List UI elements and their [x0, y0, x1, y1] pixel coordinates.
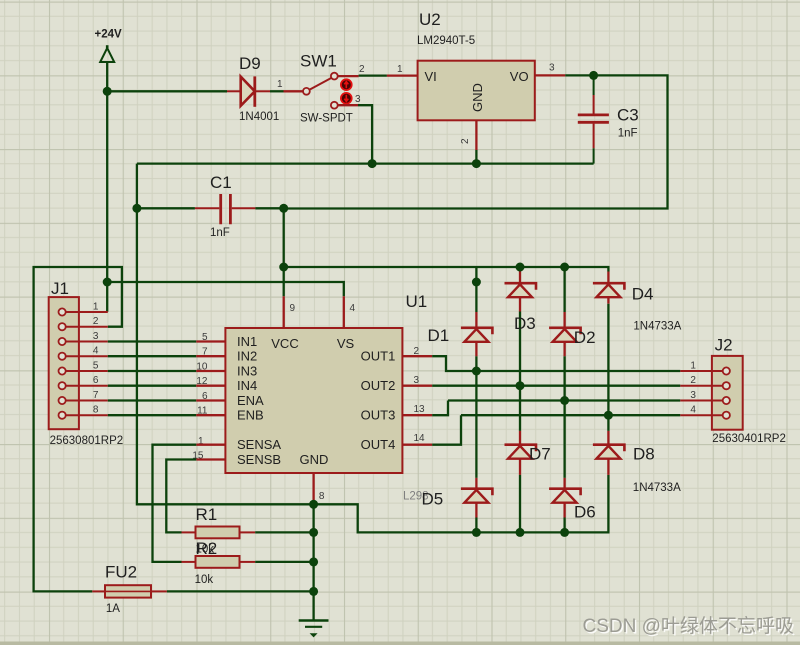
diode D8 (zener, cathode up)	[593, 445, 625, 459]
wire D1 anode to row1	[475, 356, 477, 371]
svg-text:VCC: VCC	[271, 336, 298, 351]
junction 5V rail / D2	[560, 263, 569, 272]
svg-text:1nF: 1nF	[618, 128, 638, 140]
svg-text:2: 2	[460, 138, 471, 144]
svg-text:SENSA: SENSA	[237, 437, 281, 452]
pin lead D5 anode	[475, 503, 477, 518]
junction GND / FU2	[309, 587, 318, 596]
junction bottom rail / D5	[472, 528, 481, 537]
J1 pin 5 stub	[66, 370, 108, 372]
svg-text:U2: U2	[419, 10, 441, 29]
svg-text:8: 8	[319, 491, 325, 502]
svg-text:D8: D8	[633, 445, 655, 464]
wire row3 down to D6	[563, 401, 565, 478]
J2 pin 4 stub	[680, 414, 722, 416]
wire J1 to U1 input row	[108, 414, 197, 416]
wire +24V rail y282 to VS	[107, 282, 344, 296]
svg-text:SW-SPDT: SW-SPDT	[300, 113, 353, 125]
pin lead D3 anode	[519, 297, 521, 311]
svg-text:OUT3: OUT3	[361, 408, 396, 423]
wire SENSB to R1	[166, 460, 196, 533]
junction row2 / D3	[516, 381, 525, 390]
svg-text:4: 4	[350, 303, 356, 314]
svg-text:D5: D5	[422, 490, 444, 509]
svg-text:C3: C3	[617, 106, 639, 125]
wire U2 GND to rail	[475, 150, 477, 164]
pin lead D7 anode	[519, 459, 521, 475]
driver U1 L298 body	[225, 328, 402, 473]
wire SW1 throw B to rail	[358, 105, 372, 163]
junction row4 / D4	[604, 411, 613, 420]
svg-text:14: 14	[414, 433, 426, 444]
pin stub SW1 pole	[284, 90, 303, 92]
fuse FU2	[92, 585, 167, 597]
wire C1 right lead	[255, 207, 283, 209]
svg-text:VO: VO	[510, 69, 529, 84]
svg-text:D7: D7	[529, 445, 551, 464]
wire mid rail y163	[137, 162, 594, 164]
wire D5 anode to bottom rail	[475, 518, 477, 533]
pin stub U1 VS	[343, 296, 345, 328]
resistor R1	[182, 527, 256, 539]
pin lead D2 cathode	[563, 312, 565, 328]
wire OUT2 to J2 pin2	[432, 385, 680, 387]
svg-text:3: 3	[355, 94, 361, 105]
pin lead D4 anode	[607, 297, 609, 304]
svg-text:1: 1	[690, 361, 696, 372]
svg-text:D1: D1	[428, 326, 450, 345]
svg-text:D4: D4	[632, 285, 654, 304]
svg-text:5: 5	[93, 361, 99, 372]
J1 pin 4 circle	[59, 353, 66, 360]
wire D7 anode to bottom rail	[519, 475, 521, 533]
wire row3 to J2 pin3	[448, 399, 680, 401]
junction +24V / D9 row	[103, 87, 112, 96]
pin lead D5 cathode	[475, 478, 477, 489]
svg-text:VS: VS	[337, 336, 355, 351]
svg-text:C1: C1	[210, 173, 232, 192]
svg-text:7: 7	[93, 390, 99, 401]
regulator U2 LM2940T-5 body	[418, 61, 535, 121]
svg-text:R1: R1	[196, 505, 218, 524]
wire 5V rail to D2	[563, 267, 565, 312]
wire C1-left down to GND row and diode bottom rail	[137, 164, 609, 533]
junction bottom rail / D6	[560, 528, 569, 537]
pin stub U1 GND	[312, 473, 314, 502]
svg-text:D9: D9	[239, 54, 261, 73]
pin stub U2 VI	[387, 74, 418, 76]
svg-text:D6: D6	[574, 503, 596, 522]
wire J1 to U1 input row	[108, 355, 197, 357]
wire row4 to J2 pin4	[461, 414, 680, 416]
svg-text:1N4733A: 1N4733A	[633, 321, 681, 333]
wire D4 anode to row4	[607, 304, 609, 416]
pin stub SENSA	[196, 444, 225, 446]
wire J1 to U1 input row	[108, 399, 197, 401]
svg-text:OUT2: OUT2	[361, 378, 396, 393]
svg-text:J1: J1	[51, 279, 69, 298]
svg-text:GND: GND	[470, 83, 485, 112]
junction C1 right / 5V	[279, 204, 288, 213]
J2 pin 1 stub	[680, 370, 722, 372]
pin stub U1 input	[196, 340, 225, 342]
wire FU2 to GND node	[167, 590, 314, 592]
svg-text:1: 1	[93, 302, 99, 313]
J2 pin 3 circle	[723, 397, 730, 404]
junction D1 column tap	[472, 278, 481, 287]
wire C1 left lead	[137, 207, 195, 209]
connector J1 body	[49, 297, 79, 429]
wire D3 anode to row2	[519, 312, 521, 386]
junction GND / R1	[309, 528, 318, 537]
diode D5 (zener, cathode up)	[461, 489, 493, 503]
pin lead D8 cathode	[607, 431, 609, 445]
J1 pin 1 circle	[59, 308, 66, 315]
svg-text:5: 5	[202, 332, 208, 343]
svg-text:VI: VI	[425, 69, 437, 84]
pin lead D2 anode	[563, 342, 565, 357]
svg-text:+24V: +24V	[95, 29, 123, 41]
svg-text:7: 7	[202, 347, 208, 358]
svg-text:1: 1	[277, 79, 283, 90]
pin lead D6 anode	[563, 503, 565, 518]
svg-text:SENSB: SENSB	[237, 452, 281, 467]
wire OUT1 to J2 pin1	[432, 356, 680, 371]
wire D9 cathode to SW1	[270, 90, 284, 92]
svg-text:OUT1: OUT1	[361, 349, 396, 364]
svg-text:2: 2	[359, 64, 365, 75]
svg-text:8: 8	[93, 405, 99, 416]
pin lead D7 cathode	[519, 431, 521, 445]
pin stub SENSB	[196, 458, 225, 460]
pin stub U1 input	[196, 370, 225, 372]
wire row2 down to D7	[519, 386, 521, 431]
svg-text:R2: R2	[196, 539, 218, 558]
J1 pin 7 stub	[66, 400, 108, 402]
junction 5V rail / VCC	[279, 263, 288, 272]
svg-text:SW1: SW1	[300, 52, 337, 71]
capacitor C3	[578, 75, 609, 163]
pin lead D6 cathode	[563, 478, 565, 489]
svg-text:IN3: IN3	[237, 364, 257, 379]
pin stub SW1 throw B	[338, 104, 358, 106]
wire 5V rail y267 to D4	[284, 208, 609, 271]
wire row1 down to D5	[475, 371, 477, 478]
junction +24V / VS rail	[103, 278, 112, 287]
pin stub OUT4	[402, 444, 432, 446]
pin lead D4 cathode	[607, 272, 609, 284]
junction GND / R2	[309, 557, 318, 566]
svg-text:10k: 10k	[195, 574, 214, 586]
diode D9	[227, 76, 270, 106]
wire J1 pin2 to FU2 feed	[34, 267, 122, 591]
wire VO to C3 tap	[565, 74, 593, 76]
junction VO / C3	[589, 71, 598, 80]
svg-text:U1: U1	[406, 292, 428, 311]
svg-text:LM2940T-5: LM2940T-5	[417, 35, 475, 47]
junction U2 GND / mid rail	[472, 159, 481, 168]
wire row4 down to D8	[607, 415, 609, 431]
pin stub U1 input	[196, 355, 225, 357]
J2 pin 2 circle	[723, 382, 730, 389]
junction row3 / D2	[560, 396, 569, 405]
pin stub SW1 throw A	[338, 75, 359, 77]
pin stub U2 GND	[475, 120, 477, 150]
J2 pin 4 circle	[723, 412, 730, 419]
wire 5V rail to D1 cathode	[475, 267, 477, 312]
pin stub U1 input	[196, 414, 225, 416]
svg-text:OUT4: OUT4	[361, 437, 396, 452]
svg-text:1: 1	[397, 64, 403, 75]
svg-text:2: 2	[93, 316, 99, 327]
svg-text:IN2: IN2	[237, 349, 257, 364]
pin stub OUT2	[402, 385, 432, 387]
svg-text:3: 3	[690, 390, 696, 401]
svg-text:25630801RP2: 25630801RP2	[50, 435, 124, 447]
svg-text:3: 3	[549, 63, 555, 74]
diode D2 (zener, cathode up)	[549, 328, 581, 342]
svg-text:D3: D3	[514, 314, 536, 333]
junction row1 / D1	[472, 367, 481, 376]
svg-text:6: 6	[93, 375, 99, 386]
svg-text:IN1: IN1	[237, 334, 257, 349]
J2 pin 2 stub	[680, 385, 722, 387]
J1 pin 7 circle	[59, 397, 66, 404]
svg-text:6: 6	[202, 391, 208, 402]
wire SENSA to R2	[153, 445, 197, 562]
junction throw B / mid rail	[368, 159, 377, 168]
diode D1 (zener, cathode up)	[461, 328, 493, 342]
wire OUT3 bend up	[432, 401, 448, 416]
power symbol +24V	[100, 45, 114, 62]
switch SW1 actuator dots	[341, 79, 352, 103]
J1 pin 4 stub	[66, 355, 108, 357]
wire OUT4 bend up	[432, 415, 461, 445]
svg-text:IN4: IN4	[237, 378, 257, 393]
J2 pin 3 stub	[680, 400, 722, 402]
svg-text:D2: D2	[574, 328, 596, 347]
svg-text:10: 10	[196, 362, 208, 373]
J1 pin 6 stub	[66, 385, 108, 387]
svg-text:13: 13	[414, 404, 426, 415]
J1 pin 5 circle	[59, 367, 66, 374]
pin stub OUT3	[402, 414, 432, 416]
pin lead D3 cathode	[519, 272, 521, 284]
watermark CSDN	[583, 615, 796, 639]
pin lead D1 cathode	[475, 312, 477, 328]
pin stub OUT1	[402, 355, 432, 357]
svg-text:CSDN @叶绿体不忘呼吸: CSDN @叶绿体不忘呼吸	[583, 615, 794, 637]
svg-text:4: 4	[93, 346, 99, 357]
pin stub U2 VO	[535, 74, 566, 76]
svg-text:3: 3	[93, 331, 99, 342]
J1 pin 3 circle	[59, 338, 66, 345]
wire D2 anode to row3	[563, 356, 565, 400]
svg-text:12: 12	[196, 376, 208, 387]
wire J1 to U1 input row	[108, 370, 197, 372]
svg-text:1A: 1A	[106, 603, 120, 615]
junction bottom rail / D7	[516, 528, 525, 537]
J1 pin 1 stub	[66, 311, 108, 313]
pin stub U1 input	[196, 399, 225, 401]
ground symbol	[299, 621, 329, 638]
svg-text:1N4001: 1N4001	[239, 111, 279, 123]
svg-text:25630401RP2: 25630401RP2	[712, 433, 786, 445]
wire R2 to GND node	[255, 561, 313, 563]
svg-text:4: 4	[690, 405, 696, 416]
switch SW1 (SW-SPDT)	[303, 73, 338, 109]
diode D7 (zener, cathode up)	[505, 445, 537, 459]
junction C1 left	[132, 204, 141, 213]
svg-text:FU2: FU2	[105, 563, 137, 582]
junction 5V rail / D3	[516, 263, 525, 272]
diode D6 (zener, cathode up)	[549, 489, 581, 503]
resistor R2	[182, 556, 256, 568]
svg-text:9: 9	[290, 303, 296, 314]
J1 pin 2 circle	[59, 323, 66, 330]
diode D3 (zener, cathode up)	[505, 283, 537, 297]
J1 pin 3 stub	[66, 341, 108, 343]
J1 pin 2 stub	[66, 326, 108, 328]
wire 5V: VO right, down, left to C1	[284, 75, 668, 208]
wire D6 anode to bottom rail	[563, 518, 565, 533]
J1 pin 6 circle	[59, 382, 66, 389]
pin lead D1 anode	[475, 342, 477, 357]
svg-text:ENB: ENB	[237, 408, 264, 423]
svg-text:11: 11	[197, 406, 208, 417]
wire 5V rail to D3	[519, 267, 521, 272]
wire SW1 to U2 VI	[359, 74, 387, 76]
pin lead D8 anode	[607, 459, 609, 475]
connector J2 body	[712, 356, 743, 430]
svg-text:GND: GND	[300, 452, 329, 467]
pin stub U1 input	[196, 385, 225, 387]
capacitor C1	[195, 194, 256, 224]
J2 pin 1 circle	[723, 367, 730, 374]
wire VCC drop	[283, 267, 285, 296]
svg-text:J2: J2	[715, 336, 733, 355]
J1 pin 8 circle	[59, 412, 66, 419]
diode D4 (zener, cathode up)	[593, 283, 625, 297]
svg-text:1N4733A: 1N4733A	[633, 482, 681, 494]
svg-text:1nF: 1nF	[210, 227, 230, 239]
wire J1 to U1 input row	[108, 385, 197, 387]
wire +24V to D9 anode	[107, 90, 227, 92]
svg-text:3: 3	[414, 375, 420, 386]
wire GND vertical	[312, 502, 314, 621]
junction GND / left rail	[309, 500, 318, 509]
wire J1 to U1 input row	[108, 340, 197, 342]
svg-text:ENA: ENA	[237, 393, 264, 408]
wire R1 to GND node	[255, 531, 313, 533]
J1 pin 8 stub	[66, 414, 108, 416]
wire +24V vertical rail	[106, 62, 108, 312]
pin stub U1 VCC	[283, 296, 285, 328]
svg-text:2: 2	[690, 375, 696, 386]
